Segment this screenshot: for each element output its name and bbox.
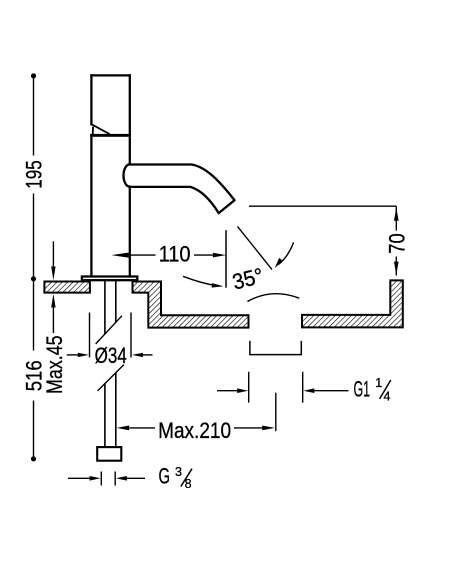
svg-text:4: 4 [384,390,391,404]
svg-text:8: 8 [185,477,192,491]
svg-text:1: 1 [375,376,382,390]
svg-text:Max.210: Max.210 [158,418,231,443]
svg-text:70: 70 [384,233,409,253]
svg-text:110: 110 [159,241,191,266]
svg-text:G: G [159,463,171,488]
svg-text:Ø34: Ø34 [95,343,127,368]
svg-text:G1: G1 [354,376,371,401]
svg-text:3: 3 [175,465,182,479]
svg-text:195: 195 [22,160,47,189]
svg-text:Max.45: Max.45 [42,335,67,394]
